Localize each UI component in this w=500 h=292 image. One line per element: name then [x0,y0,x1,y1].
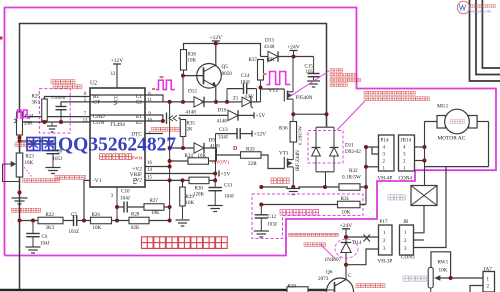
svg-text:10K: 10K [186,201,195,206]
ground in oscillator box [51,122,53,126]
resistor R33 [241,152,262,159]
svg-text:8050: 8050 [222,71,233,77]
svg-text:20K: 20K [24,122,33,127]
JA7 pin2 wire [470,286,483,292]
+12V supply to pin 12 [116,64,118,88]
R33 to VT1 gate [261,155,284,169]
wire to C8 [20,140,54,142]
wire RT pin6 [45,97,91,100]
IC U2 TL494 [90,88,145,187]
diode D12 [194,97,204,107]
svg-text:D9: D9 [209,138,216,144]
wire CON pin13 [20,121,91,123]
svg-text:+12V: +12V [254,132,267,138]
resistor R27 [144,204,164,211]
wire GND pin7 [20,116,91,118]
svg-text:www.jdwx.info: www.jdwx.info [471,10,492,14]
svg-text:R34: R34 [185,154,194,159]
svg-text:12: 12 [111,72,116,77]
svg-text:R31: R31 [341,196,350,202]
magenta pointer to D11 box [337,101,365,130]
svg-text:C12: C12 [268,214,277,220]
+12V rail top [184,44,261,57]
dual diode D11 dashed box [308,131,343,164]
resistor R22 [38,217,63,224]
svg-text:R28: R28 [131,213,140,218]
capacitor C8 [52,141,54,151]
motor wires [425,121,438,123]
svg-text:P14: P14 [381,138,389,144]
svg-text:104J: 104J [224,194,234,200]
svg-text:10K: 10K [151,211,160,216]
VT2 gate wire [261,88,285,90]
svg-text:U2: U2 [90,81,97,87]
svg-text:14: 14 [147,168,152,173]
resistor R28 [117,220,129,222]
svg-text:C14: C14 [241,73,250,79]
small pulse near R24 [16,110,31,118]
svg-text:5K1: 5K1 [32,101,41,106]
svg-text:2073: 2073 [318,276,329,282]
capacitor C7 [73,215,75,226]
capacitor C15 [313,57,315,74]
-V2 pin15 / R30 wire [145,179,189,181]
connector P14 [379,135,395,171]
svg-text:D11: D11 [345,143,354,149]
svg-text:C9103J: C9103J [52,95,66,100]
svg-text:R23: R23 [26,155,35,160]
drain wire to motor loop [293,113,326,115]
base node down wire to R35 [182,76,184,102]
wires E1/E2 pins 9,10 [90,115,163,121]
svg-text:10K: 10K [188,59,197,64]
svg-text:VH-4P: VH-4P [378,176,393,182]
PWM red label inside IC [100,154,132,160]
resistor R24 on left rail [17,112,23,135]
capacitor C14 + zener Z1 parallel [226,89,228,102]
resistor R36 [290,122,297,143]
wire DTC pin4 [145,133,163,135]
D11 fork from main loop [316,126,334,128]
svg-text:VT1: VT1 [279,151,289,157]
diode D10 to +5V [179,114,228,116]
C13 left wire down the column [215,134,217,174]
svg-text:103J: 103J [267,222,277,228]
feedback row R22 C7 R26 R28 [20,220,39,222]
solenoid bottom wire to CON3 [410,206,424,233]
output width red note [55,175,84,179]
svg-text:R30: R30 [195,187,204,192]
resistor R29 [182,180,184,187]
svg-text:R39: R39 [288,285,297,290]
svg-text:22R: 22R [248,161,257,167]
logo top right [457,1,469,14]
resistor R37 [258,60,264,81]
right node vertical [365,147,367,205]
svg-text:10K: 10K [439,268,448,274]
resistor R30 [189,177,209,184]
oscillator dashed box [39,89,70,133]
switch tube red note 4 lines [330,69,343,73]
svg-text:C6: C6 [42,235,48,240]
svg-text:D13: D13 [265,38,274,44]
svg-text:C10: C10 [121,189,130,195]
svg-text:R35: R35 [187,122,196,127]
CON3 pin2 stub [414,239,425,241]
node D wire to R33 [217,154,241,156]
overcurrent dashed box [252,194,363,239]
svg-text:334J: 334J [218,135,228,141]
svg-text:11V(0V): 11V(0V) [211,161,229,166]
solenoid red note [289,233,339,236]
svg-text:105J: 105J [53,157,63,162]
svg-text:104J: 104J [40,242,50,247]
diode D9 / resistor R34 parallel [170,147,194,149]
speed knob red note + pointer [24,167,32,177]
svg-text:103Z: 103Z [69,230,80,235]
blue watermark [27,135,176,156]
capacitor C12 [260,205,262,215]
main label song-si-ji control circuit [142,237,228,249]
motor loop bottom wire [425,166,489,168]
resistor R25 [42,99,48,121]
svg-text:R25: R25 [32,95,41,100]
main circuit loop wire (left/top/right) [20,24,327,290]
D11 right diode [330,148,339,157]
wire CT pin5 [61,102,90,107]
svg-text:+24V: +24V [340,223,353,229]
svg-text:R32: R32 [349,168,358,174]
transistor Q6 [327,278,354,292]
R23 wiper return wire [3,164,20,182]
VT2 source from +24V [292,57,294,92]
svg-text:+5V: +5V [221,172,231,178]
svg-text:CON4: CON4 [399,176,413,182]
solenoid valve box [411,186,437,206]
middle column vertical [169,102,171,221]
svg-text:C11: C11 [224,183,233,189]
svg-text:0.1R/5W: 0.1R/5W [342,175,361,181]
VT1 source to ground [292,167,294,187]
pointer line [320,244,335,259]
Q5 collector wire [215,44,217,67]
svg-text:10K: 10K [93,226,102,231]
resistor R39 on bottom rail [287,287,308,292]
magenta pointer to VT2 [289,71,329,97]
P14 pin3 bracket stub [372,147,379,154]
svg-text:IRF Z44N: IRF Z44N [296,150,301,171]
D11 left diode [312,148,321,157]
svg-text:P17: P17 [380,219,388,225]
svg-text:105: 105 [306,70,314,75]
zener ZD1 [227,101,242,103]
VT1 drain from R36 [292,142,294,160]
capacitor C6 [32,221,34,234]
resistor R38 [181,50,187,71]
connector JA7 [483,272,495,292]
svg-text:+12V: +12V [111,58,124,64]
svg-text:D92-02: D92-02 [345,149,361,155]
svg-text:D: D [233,146,238,152]
svg-text:TL494: TL494 [110,122,125,128]
svg-text:RW1: RW1 [438,260,449,266]
nested corner wires top right [470,0,500,81]
CON3 pin3 wire to inductance circuit [414,167,447,248]
connector P17 [379,225,393,255]
pulse waveform at VT2 gate [267,72,291,85]
svg-text:R26: R26 [92,213,101,218]
FB pin3 wire down [116,187,118,221]
transistor Q5 [197,64,222,89]
svg-text:MOTOR AC: MOTOR AC [438,135,466,141]
svg-text:CON3: CON3 [401,255,415,261]
dashed ellipse around D14 [335,239,358,258]
+24V to solenoid driver [342,228,350,230]
bottom rail wire [0,289,327,292]
+24V flag [293,51,295,57]
JB14 pin2 stub [415,160,425,162]
solenoid driver red note [356,284,385,288]
svg-text:QQ352624827: QQ352624827 [58,135,176,156]
svg-text:C15: C15 [305,65,314,70]
wire node to P14 pin4 [366,146,379,148]
svg-text:C7: C7 [71,213,77,218]
C10 capacitor [117,206,124,208]
potentiometer R23 [16,153,23,177]
svg-text:10K: 10K [266,58,275,63]
svg-text:VT2: VT2 [269,88,279,94]
svg-text:10K: 10K [198,154,207,159]
svg-text:PWM: PWM [132,155,143,160]
svg-text:VCC: VCC [114,94,120,105]
svg-text:R37: R37 [249,58,258,63]
wires C1/C2 pins 8,11 to D12 [90,95,163,102]
resistor R31 [338,201,361,208]
svg-text:4148: 4148 [264,44,275,50]
svg-text:R33: R33 [246,147,255,153]
svg-text:VH-3P: VH-3P [378,259,393,265]
svg-text:D10: D10 [218,108,227,114]
svg-text:C13: C13 [219,127,228,133]
svg-text:1N4007: 1N4007 [325,257,342,263]
svg-text:+24V: +24V [287,45,300,51]
svg-text:10K: 10K [25,161,34,166]
E1/E2 ground arrows symbol [166,113,168,125]
svg-text:10K: 10K [342,209,351,215]
svg-text:+12V: +12V [210,35,223,41]
MOSFET VT2 F9540N [287,91,289,100]
red edge dot [0,37,3,40]
svg-text:4148: 4148 [186,110,197,116]
svg-text:R29: R29 [186,195,195,200]
svg-text:0.22R/5W: 0.22R/5W [298,125,303,145]
svg-text:R27: R27 [150,199,159,204]
small red note left [15,143,33,147]
resistor R26 [91,217,112,224]
svg-text:FB: FB [133,177,139,184]
connector JB CON3 [400,225,414,255]
svg-text:Q5: Q5 [222,64,229,70]
capacitor C13 to +12V [216,133,238,135]
svg-text:3K3: 3K3 [46,226,55,231]
DTC red note [152,127,180,131]
VT2 drain down [292,99,294,121]
svg-text:4.5V: 4.5V [245,95,255,100]
inductance adjust red note [403,276,427,281]
JB14 pin4 stub [415,146,425,148]
svg-text:Q6: Q6 [326,270,333,276]
svg-text:104J: 104J [240,80,250,86]
connector JB14 [399,135,415,171]
Q5 base wire [183,75,204,77]
+V2 pin16 wire [145,166,170,168]
motor voltage red note [12,208,41,212]
svg-text:4148: 4148 [217,119,228,125]
svg-text:15: 15 [147,176,152,181]
svg-text:R36: R36 [279,126,288,132]
svg-text:120K: 120K [193,193,205,198]
svg-text:R22: R22 [46,213,55,218]
svg-text:JB: JB [403,219,409,225]
resistor R35 [180,120,186,137]
svg-text:+5V: +5V [256,113,266,119]
freewheel diode red note 2 lines [364,91,415,95]
R31 row [261,204,337,206]
RW1 inductance pot [431,252,451,278]
Q5 emitter wire [215,86,217,102]
pin numbers [83,72,153,199]
sense resistor R32 row [261,186,288,188]
-V1 pin2 wire [84,180,90,220]
oscillator red annotation [51,80,75,84]
svg-text:-V1: -V1 [93,178,102,184]
+5V flag / VREF wire [145,173,215,175]
P17 pin3 wire to Q6 collector [346,249,379,265]
svg-text:16: 16 [147,161,152,166]
svg-text:Z1: Z1 [233,97,239,102]
svg-text:D12: D12 [188,89,197,95]
svg-text:C: C [348,273,352,279]
pulse waveform at pin C1 output [156,80,175,89]
svg-text:MG1: MG1 [437,104,449,110]
svg-text:104J: 104J [120,196,130,202]
svg-text:R38: R38 [188,53,197,58]
capacitor C11 [214,174,216,188]
svg-text:JB14: JB14 [401,138,412,144]
ground under R23 [12,197,28,199]
MOSFET VT1 brake [287,158,289,167]
diode D14 [341,243,351,253]
svg-text:82K: 82K [131,226,140,231]
svg-text:JA7: JA7 [484,267,493,273]
svg-text:F9540N: F9540N [296,95,313,101]
wire with X to P17 pin1 [346,236,379,238]
svg-text:2K: 2K [187,128,194,133]
